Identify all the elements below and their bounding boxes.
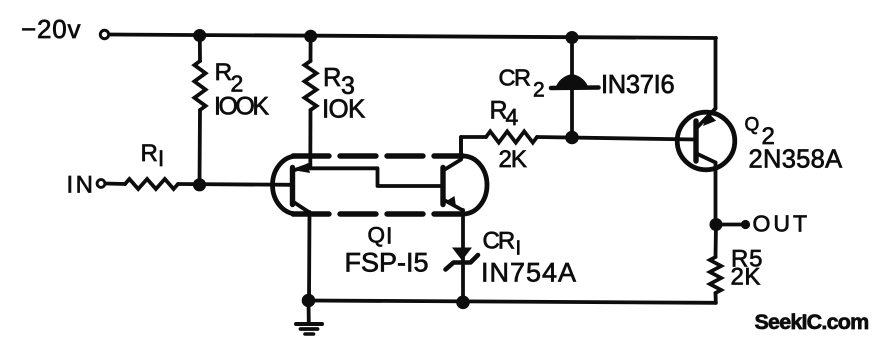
svg-text:I: I — [386, 223, 392, 249]
svg-text:I: I — [516, 238, 522, 260]
svg-text:CR: CR — [483, 228, 515, 255]
svg-text:SeekIC.com: SeekIC.com — [755, 310, 869, 334]
svg-text:IOK: IOK — [322, 94, 366, 124]
junction rail/R2 — [193, 29, 206, 42]
svg-text:OUT: OUT — [753, 211, 811, 237]
label 1N3716 — [601, 71, 674, 99]
wire R4 to Q2 base — [537, 137, 696, 140]
junction ground node — [302, 294, 316, 308]
wire Q1b emitter down through CR1 — [461, 210, 465, 302]
transistor Q2 emitter lead with arrow — [698, 109, 717, 128]
junction R4/CR2 — [565, 131, 579, 145]
junction rail/R3 — [304, 30, 317, 43]
label CR2 — [499, 65, 545, 102]
label IN — [67, 172, 96, 199]
svg-text:IOOK: IOOK — [214, 93, 269, 121]
label R4 — [490, 97, 519, 131]
svg-text:−20v: −20v — [21, 14, 81, 44]
terminal OUT — [741, 220, 750, 229]
wire R4 left corner to Q1b collector — [461, 137, 486, 160]
wire OUT stub — [716, 223, 742, 227]
svg-text:2K: 2K — [731, 264, 761, 291]
resistor R4 — [486, 131, 537, 142]
label -20v — [21, 14, 81, 44]
diode CR1 (zener) — [446, 248, 479, 270]
label 2N358A — [749, 146, 843, 174]
watermark SeekIC.com — [755, 310, 869, 334]
resistor R3 — [305, 36, 317, 167]
wire CR2 branch — [570, 38, 574, 138]
label 2K (R4) — [499, 146, 527, 173]
resistor R1 — [125, 179, 178, 189]
wire Q2 collector down to OUT node — [714, 163, 718, 225]
label 1N754A — [481, 258, 577, 288]
svg-text:CR: CR — [499, 65, 530, 91]
transistor Q1a base bar — [290, 168, 295, 205]
transistor Q2 base bar — [693, 121, 698, 161]
svg-text:4: 4 — [506, 104, 519, 130]
svg-text:IN37I6: IN37I6 — [601, 71, 674, 99]
label Q1 — [368, 223, 393, 249]
transistor Q1a collector lead — [294, 202, 310, 213]
svg-text:IN: IN — [67, 172, 96, 199]
svg-text:Q: Q — [368, 223, 386, 248]
svg-text:2N358A: 2N358A — [749, 146, 843, 174]
label CR1 — [483, 228, 522, 260]
wire rail to Q2 emitter — [714, 38, 718, 109]
terminal IN — [97, 180, 105, 188]
transistor Q2 body — [677, 112, 735, 170]
wire top rail — [110, 35, 717, 39]
label FSP-15 — [345, 248, 429, 278]
svg-text:Q: Q — [745, 115, 760, 136]
label OUT — [753, 211, 811, 237]
transistor Q2 collector lead — [698, 154, 716, 163]
transistor Q1b collector lead — [444, 137, 461, 170]
wire R1 to Q1 base — [178, 182, 293, 187]
svg-text:FSP-I5: FSP-I5 — [345, 248, 429, 278]
svg-text:2K: 2K — [499, 146, 527, 173]
label 2K (R5) — [731, 264, 761, 291]
svg-text:I: I — [158, 146, 164, 171]
ground — [296, 301, 322, 335]
transistor Q1a emitter lead with arrow — [294, 163, 311, 173]
diode CR2 — [551, 74, 599, 89]
svg-text:R: R — [141, 140, 158, 167]
junction R1/R2 — [193, 178, 206, 191]
label Q2 — [745, 115, 775, 151]
label R5 — [731, 246, 763, 273]
resistor R2 — [194, 36, 205, 186]
transistor Q1b emitter lead with arrow — [444, 196, 463, 211]
resistor R5 — [710, 225, 721, 303]
wire Q1a-Q1b coupling (stepped) — [310, 168, 442, 186]
wire IN lead — [106, 182, 126, 186]
terminal -20v — [100, 30, 108, 38]
svg-text:2: 2 — [533, 79, 545, 102]
wire Q1a collector down to ground rail — [307, 212, 311, 301]
label 10K — [322, 94, 366, 124]
svg-text:IN754A: IN754A — [481, 258, 577, 288]
label R1 — [141, 140, 165, 171]
label 100K — [214, 93, 269, 121]
wire bottom rail — [309, 301, 716, 303]
junction OUT node — [710, 218, 723, 231]
label R3 — [323, 64, 355, 100]
junction CR1/rail — [456, 296, 470, 310]
label R2 — [215, 59, 244, 97]
svg-text:R: R — [323, 64, 341, 92]
transistor Q1b base bar — [440, 168, 445, 205]
transistor Q1 package outline — [273, 156, 488, 214]
junction rail/CR2 — [566, 31, 579, 44]
